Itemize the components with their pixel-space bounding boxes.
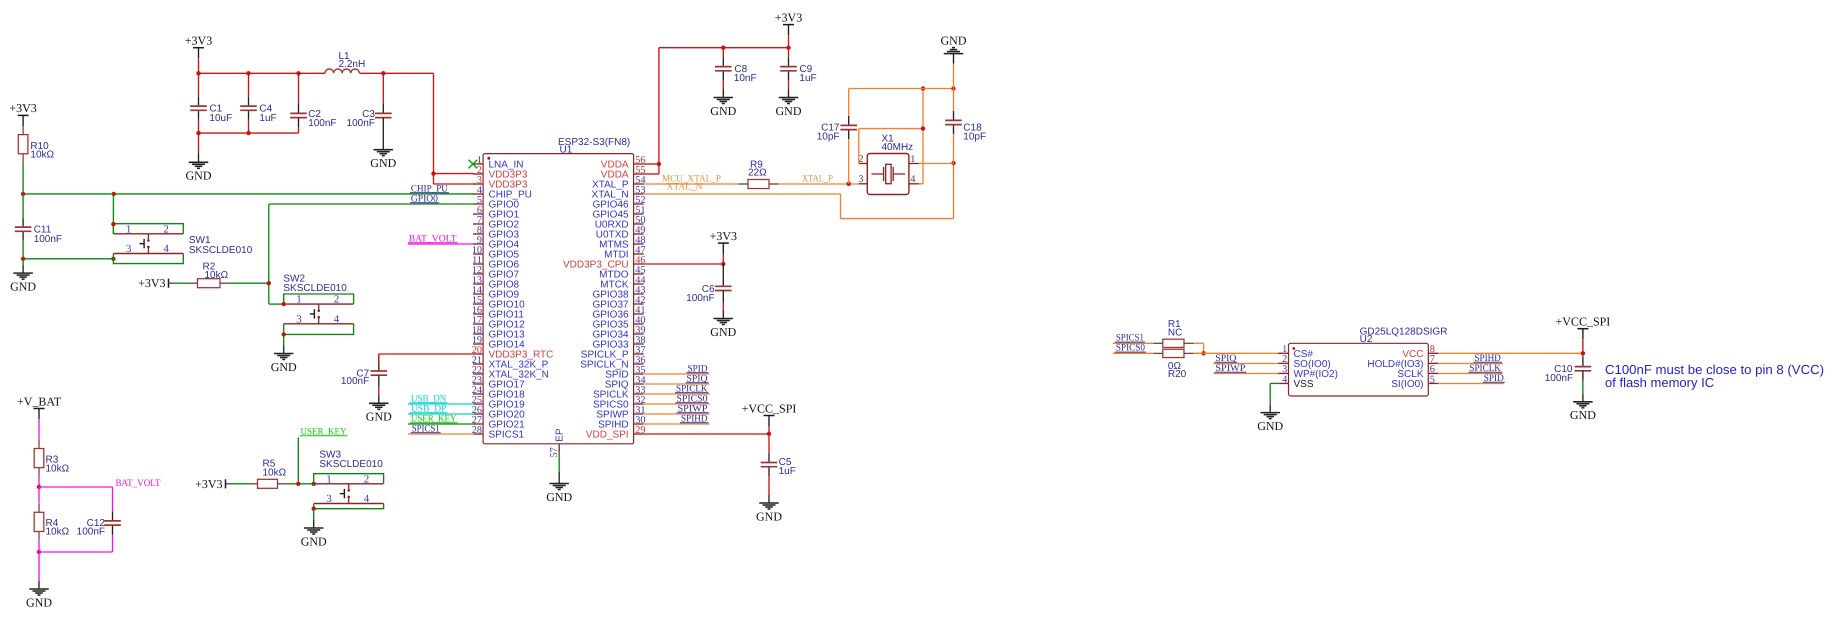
- svg-text:+VCC_SPI: +VCC_SPI: [742, 401, 797, 415]
- svg-text:+3V3: +3V3: [185, 34, 212, 48]
- svg-text:4: 4: [910, 174, 915, 185]
- svg-text:2.2nH: 2.2nH: [339, 59, 366, 70]
- svg-text:1: 1: [326, 473, 332, 485]
- svg-text:+3V3: +3V3: [775, 10, 802, 24]
- svg-text:100nF: 100nF: [341, 376, 369, 387]
- svg-text:2: 2: [364, 473, 370, 485]
- svg-text:+3V3: +3V3: [710, 229, 737, 243]
- svg-text:GND: GND: [271, 360, 297, 374]
- svg-text:10uF: 10uF: [209, 113, 232, 124]
- svg-text:GND: GND: [546, 490, 572, 504]
- svg-text:2: 2: [163, 223, 169, 235]
- svg-text:100nF: 100nF: [308, 118, 336, 129]
- svg-text:1: 1: [910, 154, 915, 165]
- svg-text:SKSCLDE010: SKSCLDE010: [189, 245, 253, 256]
- svg-text:GND: GND: [370, 156, 396, 170]
- svg-text:2: 2: [334, 294, 340, 306]
- svg-text:3: 3: [296, 313, 302, 325]
- svg-text:SPICS1: SPICS1: [489, 429, 525, 440]
- svg-text:100nF: 100nF: [347, 118, 375, 129]
- svg-text:GND: GND: [301, 534, 327, 548]
- svg-text:U1: U1: [560, 145, 573, 156]
- svg-text:GND: GND: [10, 279, 36, 293]
- svg-text:100nF: 100nF: [1545, 373, 1573, 384]
- svg-text:+3V3: +3V3: [195, 477, 222, 491]
- svg-text:GND: GND: [1570, 408, 1596, 422]
- svg-text:1uF: 1uF: [259, 113, 276, 124]
- svg-text:GND: GND: [710, 104, 736, 118]
- svg-text:+VCC_SPI: +VCC_SPI: [1556, 315, 1611, 329]
- svg-text:10nF: 10nF: [734, 73, 757, 84]
- svg-text:1: 1: [126, 223, 131, 235]
- svg-text:VSS: VSS: [1294, 379, 1314, 390]
- svg-text:of flash memory IC: of flash memory IC: [1605, 375, 1714, 390]
- svg-text:GND: GND: [941, 33, 967, 47]
- svg-text:3: 3: [126, 243, 132, 255]
- svg-text:BAT_VOLT: BAT_VOLT: [116, 478, 161, 489]
- svg-text:GND: GND: [776, 104, 802, 118]
- svg-text:100nF: 100nF: [34, 234, 62, 245]
- svg-text:GND: GND: [710, 325, 736, 339]
- svg-text:SI(IO0): SI(IO0): [1391, 379, 1423, 390]
- svg-text:22Ω: 22Ω: [748, 168, 767, 179]
- svg-text:4: 4: [163, 243, 169, 255]
- svg-text:1uF: 1uF: [799, 73, 816, 84]
- svg-text:10kΩ: 10kΩ: [46, 464, 70, 475]
- svg-text:GND: GND: [1257, 419, 1283, 433]
- svg-text:40MHz: 40MHz: [882, 142, 914, 153]
- svg-text:10kΩ: 10kΩ: [30, 150, 54, 161]
- svg-text:GND: GND: [186, 169, 212, 183]
- svg-text:NC: NC: [1168, 328, 1182, 339]
- svg-text:4: 4: [364, 493, 370, 505]
- svg-text:XTAL_P: XTAL_P: [802, 174, 833, 185]
- svg-text:+V_BAT: +V_BAT: [17, 394, 62, 408]
- svg-text:100nF: 100nF: [686, 293, 714, 304]
- svg-text:10kΩ: 10kΩ: [46, 526, 70, 537]
- svg-text:GND: GND: [366, 410, 392, 424]
- svg-text:3: 3: [858, 174, 863, 185]
- svg-text:U2: U2: [1360, 334, 1373, 345]
- svg-text:10pF: 10pF: [817, 131, 840, 142]
- svg-text:3: 3: [326, 493, 332, 505]
- svg-text:EP: EP: [554, 428, 565, 442]
- svg-text:10kΩ: 10kΩ: [263, 468, 287, 479]
- svg-text:100nF: 100nF: [77, 527, 105, 538]
- svg-text:1: 1: [296, 294, 302, 306]
- svg-text:GD25LQ128DSIGR: GD25LQ128DSIGR: [1360, 327, 1448, 338]
- svg-text:VDD_SPI: VDD_SPI: [586, 429, 629, 440]
- svg-text:1uF: 1uF: [779, 466, 796, 477]
- svg-text:10pF: 10pF: [963, 131, 986, 142]
- svg-text:SKSCLDE010: SKSCLDE010: [283, 283, 347, 294]
- svg-text:4: 4: [334, 313, 340, 325]
- svg-text:+3V3: +3V3: [138, 276, 165, 290]
- svg-text:4: 4: [1282, 374, 1287, 385]
- svg-text:57: 57: [549, 447, 560, 457]
- svg-text:GND: GND: [756, 509, 782, 523]
- svg-text:SKSCLDE010: SKSCLDE010: [319, 459, 383, 470]
- svg-text:GND: GND: [26, 595, 52, 609]
- svg-text:+3V3: +3V3: [9, 101, 36, 115]
- svg-text:5: 5: [1430, 374, 1435, 385]
- svg-text:10kΩ: 10kΩ: [205, 270, 229, 281]
- svg-text:R20: R20: [1168, 369, 1187, 380]
